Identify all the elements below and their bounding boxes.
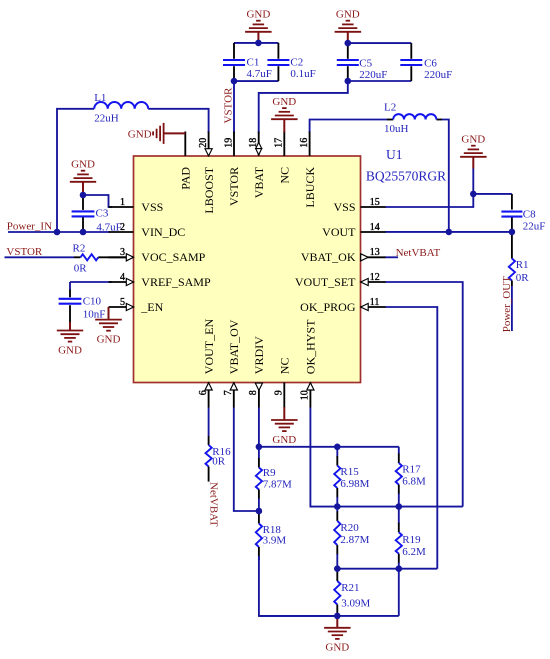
- svg-text:C6: C6: [424, 57, 437, 69]
- svg-text:4.7uF: 4.7uF: [96, 221, 121, 233]
- svg-text:R2: R2: [73, 242, 86, 254]
- svg-text:GND: GND: [58, 344, 82, 356]
- svg-text:3: 3: [120, 247, 125, 258]
- svg-text:220uF: 220uF: [424, 69, 452, 81]
- svg-text:NC: NC: [278, 167, 292, 184]
- svg-text:C3: C3: [96, 208, 109, 220]
- svg-text:NetVBAT: NetVBAT: [208, 482, 220, 527]
- svg-text:2.87M: 2.87M: [340, 534, 369, 546]
- svg-text:R1: R1: [516, 259, 529, 271]
- svg-text:VBAT: VBAT: [252, 166, 266, 198]
- svg-text:VSS: VSS: [333, 200, 355, 214]
- svg-text:GND: GND: [246, 9, 270, 21]
- svg-text:13: 13: [370, 247, 380, 258]
- svg-text:8: 8: [248, 390, 259, 395]
- svg-text:PAD: PAD: [179, 167, 193, 190]
- svg-text:6.8M: 6.8M: [402, 475, 426, 487]
- svg-text:BQ25570RGR: BQ25570RGR: [366, 168, 446, 183]
- svg-text:6: 6: [198, 390, 209, 395]
- svg-text:3.9M: 3.9M: [263, 534, 287, 546]
- svg-text:NC: NC: [278, 358, 292, 375]
- svg-text:14: 14: [370, 222, 380, 233]
- svg-text:VOUT: VOUT: [322, 225, 356, 239]
- svg-text:VIN_DC: VIN_DC: [141, 225, 185, 239]
- svg-text:6.2M: 6.2M: [402, 546, 426, 558]
- svg-text:VBAT_OV: VBAT_OV: [227, 319, 241, 374]
- svg-text:10nF: 10nF: [83, 308, 106, 320]
- svg-text:7: 7: [223, 390, 234, 395]
- svg-text:5: 5: [120, 297, 125, 308]
- svg-text:19: 19: [223, 138, 234, 148]
- svg-text:0.1uF: 0.1uF: [290, 68, 315, 80]
- svg-text:VSTOR: VSTOR: [223, 87, 235, 124]
- svg-text:LBOOST: LBOOST: [202, 166, 216, 213]
- svg-text:GND: GND: [272, 96, 296, 108]
- svg-text:C1: C1: [247, 56, 260, 68]
- svg-text:GND: GND: [97, 333, 121, 345]
- svg-text:0R: 0R: [74, 263, 88, 275]
- svg-text:10uH: 10uH: [384, 123, 409, 135]
- svg-text:NetVBAT: NetVBAT: [396, 247, 441, 259]
- svg-text:10: 10: [300, 390, 311, 400]
- svg-text:Power_OUT: Power_OUT: [501, 276, 513, 332]
- svg-text:VOC_SAMP: VOC_SAMP: [141, 250, 205, 264]
- svg-text:VSTOR: VSTOR: [6, 246, 43, 258]
- svg-text:R20: R20: [340, 522, 359, 534]
- svg-text:220uF: 220uF: [359, 69, 387, 81]
- svg-text:C8: C8: [523, 209, 536, 221]
- svg-text:VOUT_EN: VOUT_EN: [202, 319, 216, 375]
- svg-text:9: 9: [274, 390, 285, 395]
- svg-text:VBAT_OK: VBAT_OK: [301, 250, 356, 264]
- svg-text:GND: GND: [272, 434, 296, 446]
- svg-text:GND: GND: [71, 159, 95, 171]
- svg-text:6.98M: 6.98M: [340, 478, 369, 490]
- svg-text:4: 4: [120, 272, 125, 283]
- svg-text:7.87M: 7.87M: [263, 479, 292, 491]
- svg-text:L2: L2: [384, 102, 396, 114]
- svg-text:R17: R17: [402, 463, 421, 475]
- svg-text:U1: U1: [386, 147, 403, 162]
- svg-text:18: 18: [248, 138, 259, 148]
- svg-text:L1: L1: [94, 92, 106, 104]
- svg-text:GND: GND: [336, 9, 360, 21]
- svg-text:20: 20: [198, 138, 209, 148]
- svg-text:12: 12: [370, 272, 380, 283]
- svg-text:VSS: VSS: [141, 200, 163, 214]
- svg-text:2: 2: [120, 222, 125, 233]
- svg-text:R21: R21: [341, 582, 359, 594]
- svg-text:4.7uF: 4.7uF: [247, 68, 272, 80]
- svg-text:0R: 0R: [212, 456, 226, 468]
- svg-text:GND: GND: [128, 128, 152, 140]
- svg-text:11: 11: [370, 297, 380, 308]
- svg-text:22uF: 22uF: [523, 221, 546, 233]
- svg-text:VREF_SAMP: VREF_SAMP: [141, 275, 211, 289]
- svg-text:_EN: _EN: [140, 300, 163, 314]
- svg-text:22uH: 22uH: [94, 113, 119, 125]
- svg-text:16: 16: [299, 138, 310, 148]
- svg-text:OK_PROG: OK_PROG: [300, 300, 356, 314]
- svg-text:Power_IN: Power_IN: [7, 220, 52, 232]
- svg-text:R15: R15: [340, 466, 359, 478]
- svg-text:1: 1: [120, 197, 125, 208]
- svg-text:C2: C2: [290, 56, 303, 68]
- svg-text:C5: C5: [359, 57, 372, 69]
- svg-text:GND: GND: [461, 134, 485, 146]
- svg-text:R9: R9: [263, 467, 276, 479]
- svg-text:15: 15: [370, 197, 380, 208]
- svg-text:VOUT_SET: VOUT_SET: [295, 275, 356, 289]
- svg-text:0R: 0R: [516, 272, 530, 284]
- svg-text:R19: R19: [402, 534, 421, 546]
- svg-text:3.09M: 3.09M: [341, 597, 370, 609]
- svg-text:17: 17: [274, 138, 285, 148]
- svg-text:LBUCK: LBUCK: [303, 167, 317, 208]
- svg-text:GND: GND: [325, 642, 349, 654]
- svg-text:OK_HYST: OK_HYST: [304, 319, 318, 374]
- svg-text:VRDIV: VRDIV: [252, 336, 266, 374]
- svg-text:C10: C10: [83, 296, 102, 308]
- svg-text:VSTOR: VSTOR: [227, 167, 241, 206]
